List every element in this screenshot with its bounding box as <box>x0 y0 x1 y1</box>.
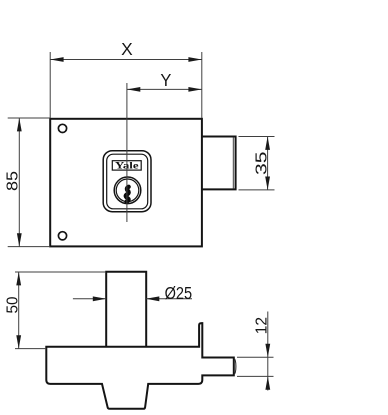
bolt nose arc <box>234 358 236 374</box>
cylinder inner circle <box>116 179 139 202</box>
svg-text:Y: Y <box>160 70 171 90</box>
screw hole top <box>58 124 66 132</box>
lock case side view outline <box>46 323 234 409</box>
dim Y arrow right <box>188 87 201 92</box>
svg-text:Ø25: Ø25 <box>165 283 193 303</box>
svg-text:85: 85 <box>5 171 22 191</box>
latch bolt front view <box>202 137 236 190</box>
lock body front rectangle <box>50 119 202 247</box>
cylinder housing side view <box>106 272 146 347</box>
dim 12 extension top <box>237 356 274 358</box>
dim 50 extension top <box>15 271 106 273</box>
svg-text:X: X <box>121 39 133 59</box>
dim X arrow right <box>188 57 201 62</box>
dim X extension right <box>201 52 203 118</box>
escutcheon outer plate <box>103 151 151 212</box>
dim 50 extension bottom <box>15 348 46 350</box>
dim Y arrow left <box>127 87 140 92</box>
dim 85 line <box>18 118 20 247</box>
dim 35 arrow top <box>265 137 270 150</box>
dim 50 line <box>18 272 20 349</box>
dim 35 arrow bottom <box>265 177 270 190</box>
dim 35 extension bottom <box>239 189 275 191</box>
latch face inner line <box>232 137 234 188</box>
screw hole bottom <box>58 232 66 240</box>
svg-text:12: 12 <box>254 317 271 334</box>
dim X line <box>50 59 202 61</box>
dim diameter arrow right <box>146 296 159 301</box>
keyway silhouette <box>126 187 129 202</box>
dim 12 arrow top <box>265 344 270 357</box>
dim diameter line left <box>73 298 106 300</box>
dim 35 extension top <box>239 136 275 138</box>
centre line <box>126 83 128 222</box>
dim 50 arrow bottom <box>16 335 21 348</box>
dim 85 arrow top <box>17 118 22 131</box>
dim X arrow left <box>50 57 63 62</box>
cylinder outer circle <box>114 177 141 204</box>
dim 50 arrow top <box>16 272 21 285</box>
dim 12 line <box>267 312 269 391</box>
svg-text:35: 35 <box>254 151 271 175</box>
dim diameter arrow left <box>93 296 106 301</box>
escutcheon inner plate <box>107 154 148 209</box>
dim 12 extension bottom <box>237 375 274 377</box>
dim 85 extension bottom <box>8 246 51 248</box>
svg-text:50: 50 <box>4 296 21 313</box>
Yale label box <box>112 161 141 170</box>
dim 35 line <box>267 137 269 190</box>
dim 12 arrow bottom <box>265 376 270 389</box>
dim Y line <box>127 88 202 90</box>
dim 85 arrow bottom <box>17 233 22 246</box>
dim diameter line right <box>146 298 192 300</box>
dim 85 extension top <box>8 117 51 119</box>
dim X extension left <box>49 52 51 118</box>
